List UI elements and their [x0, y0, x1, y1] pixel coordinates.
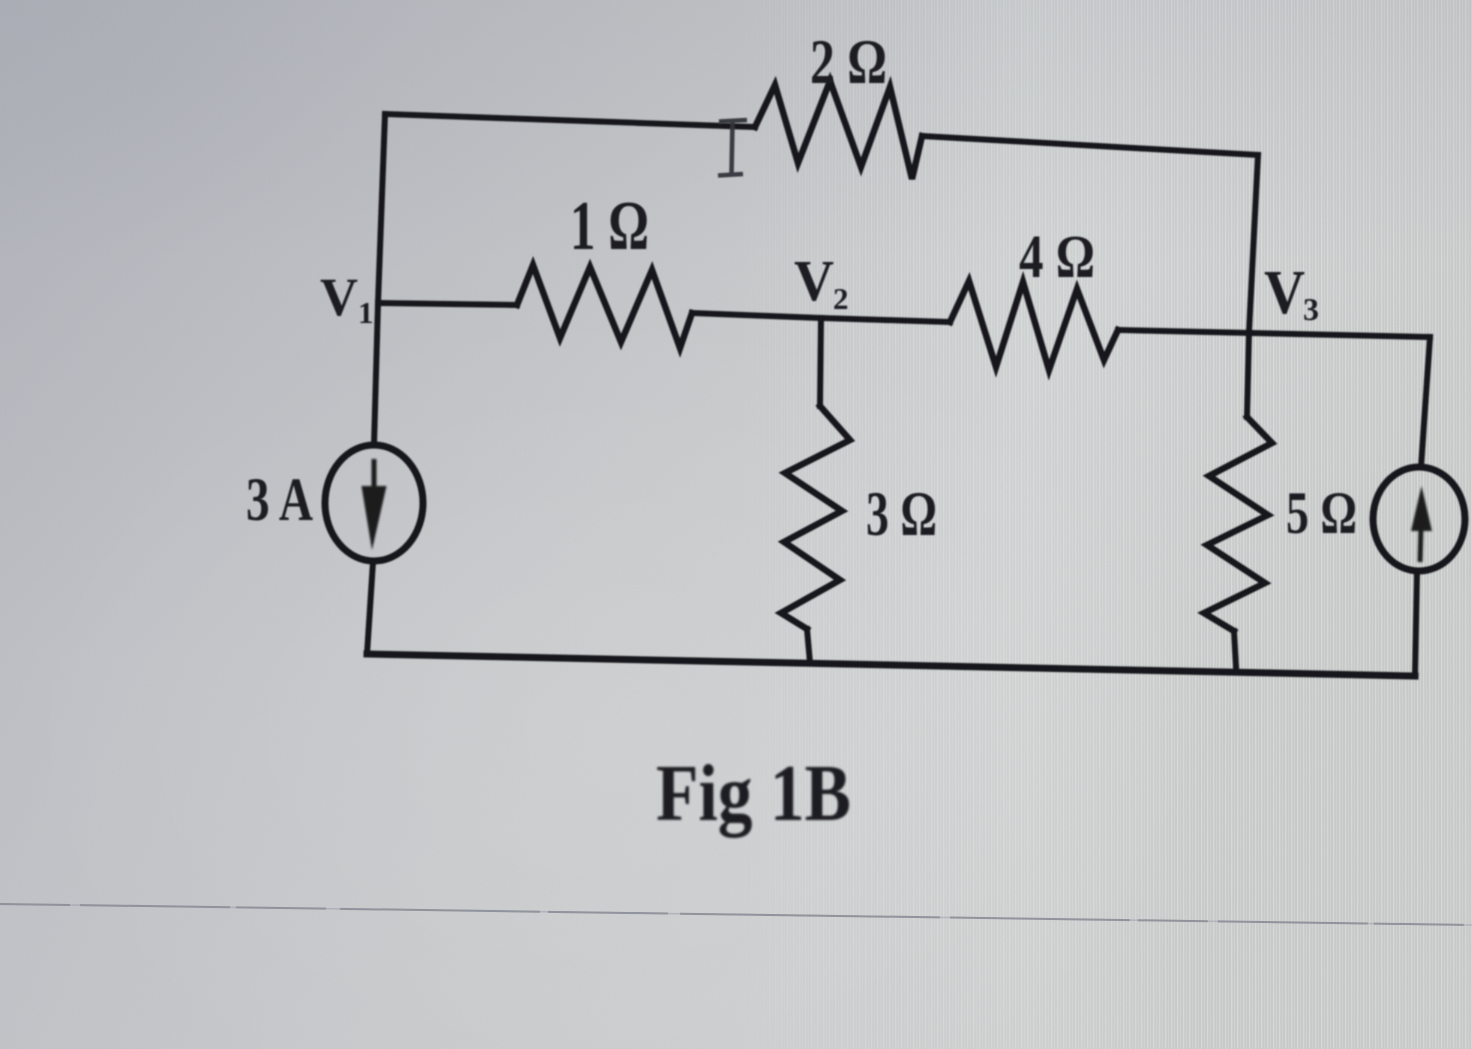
wire source I2 top up to V3 rail: [1421, 337, 1430, 467]
svg-text:2: 2: [833, 281, 849, 316]
label 4Ω: [1019, 224, 1095, 291]
svg-text:V: V: [794, 248, 834, 313]
svg-text:Fig 1B: Fig 1B: [656, 750, 851, 838]
svg-text:1 Ω: 1 Ω: [570, 188, 649, 265]
wire V1 to 1Ω: [378, 303, 517, 305]
wire V2 to 4Ω: [821, 318, 950, 322]
wire bottom-right corner up to source I2: [1415, 572, 1417, 676]
label 2Ω: [810, 26, 887, 97]
svg-text:2 Ω: 2 Ω: [810, 26, 887, 97]
wire left vertical (top corner to V1 to source): [374, 114, 385, 445]
label 1Ω: [570, 188, 649, 265]
resistor 3Ω zigzag: [781, 406, 850, 629]
current source I1 arrow (down): [362, 459, 387, 550]
page rule line: [0, 904, 1472, 925]
svg-text:V: V: [320, 267, 358, 327]
label 5Ω: [1286, 480, 1357, 546]
current source I1 circle (3A): [325, 445, 423, 561]
svg-text:4 Ω: 4 Ω: [1019, 224, 1095, 291]
svg-text:5 Ω: 5 Ω: [1286, 480, 1357, 546]
caption Fig 1B: [656, 750, 851, 838]
wire V2 stub down: [820, 318, 821, 406]
node V1 label: [320, 267, 374, 330]
node V3 label: [1264, 259, 1319, 327]
wire 1Ω to node V2: [692, 313, 821, 318]
wire 2Ω to top-right corner: [922, 136, 1258, 155]
wire 5Ω bottom stub: [1234, 631, 1236, 667]
current source I2 circle (right): [1373, 467, 1465, 571]
resistor 2Ω zigzag: [755, 81, 922, 179]
svg-text:3 A: 3 A: [246, 467, 313, 534]
text cursor I-beam: [718, 120, 747, 176]
label 3 A: [246, 467, 313, 534]
wire bottom rail: [367, 654, 1415, 676]
wire V3 vertical (top corner down to 5Ω): [1247, 155, 1258, 417]
resistor 4Ω zigzag: [950, 281, 1118, 370]
resistor 5Ω zigzag: [1204, 417, 1272, 631]
resistor 1Ω zigzag: [517, 265, 692, 348]
wire source I1 to bottom-left corner: [367, 562, 373, 654]
svg-text:3: 3: [1303, 291, 1319, 327]
node V2 label: [794, 248, 849, 316]
wire 3Ω bottom stub: [807, 629, 810, 663]
svg-text:3 Ω: 3 Ω: [866, 478, 937, 549]
svg-text:V: V: [1264, 259, 1305, 327]
wire top-left horizontal (V1 top to 2Ω): [385, 114, 755, 127]
svg-text:1: 1: [358, 295, 374, 330]
wire 4Ω through V3 to right corner: [1118, 330, 1430, 337]
label 3Ω: [866, 478, 937, 549]
current source I2 arrow (up): [1411, 486, 1432, 562]
